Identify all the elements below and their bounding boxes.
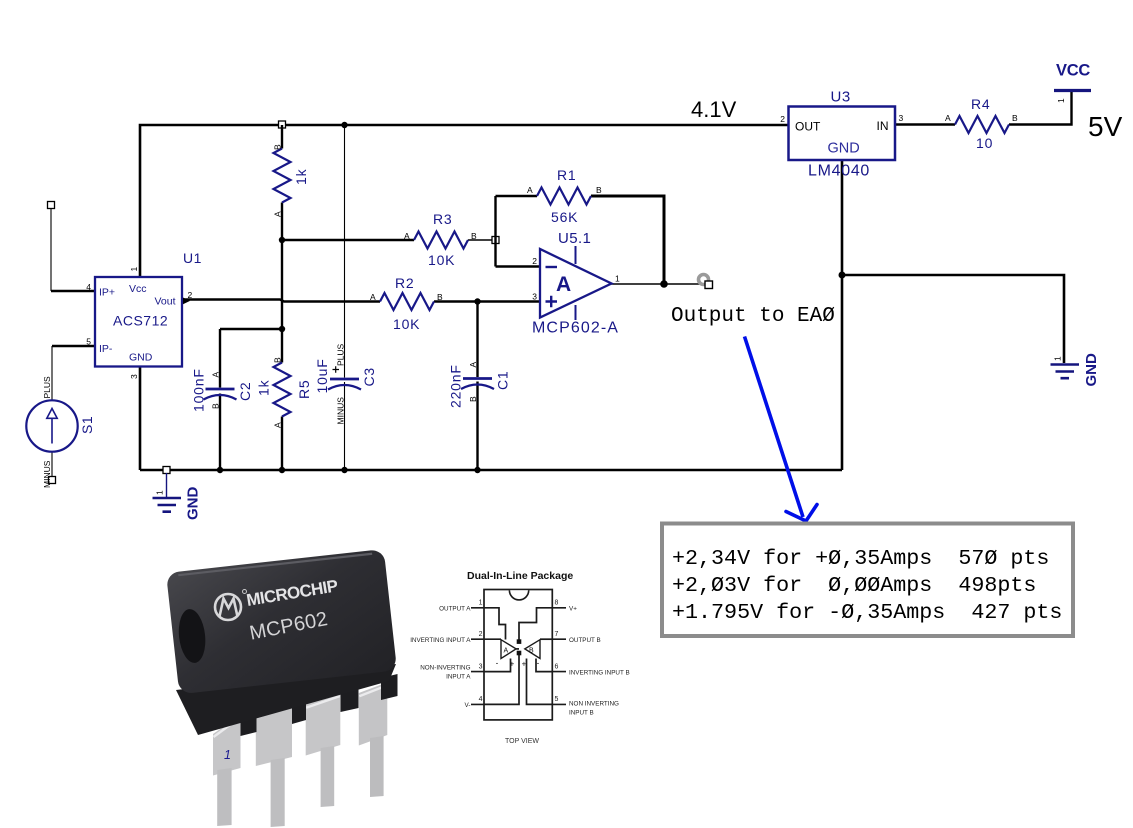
svg-text:10uF: 10uF: [314, 358, 330, 393]
wire R2 B to op-amp pin3: [434, 300, 540, 302]
svg-text:PLUS: PLUS: [42, 376, 52, 399]
svg-text:C2: C2: [237, 382, 253, 402]
junction U3 GND branch: [839, 272, 846, 279]
svg-text:TOP VIEW: TOP VIEW: [505, 738, 539, 745]
diagram Dual-In-Line Package: [410, 570, 629, 745]
svg-text:Vcc: Vcc: [129, 283, 147, 295]
capacitor C3 10uF polarized: [314, 343, 377, 424]
photo MCP602 DIP chip: [166, 549, 398, 827]
svg-text:U5.1: U5.1: [558, 230, 591, 247]
gray ring terminal: [699, 275, 709, 285]
svg-text:+: +: [522, 660, 527, 669]
svg-text:-: -: [537, 659, 540, 668]
svg-text:1: 1: [155, 490, 165, 495]
svg-text:A: A: [273, 422, 283, 428]
svg-text:OUTPUT A: OUTPUT A: [439, 606, 471, 613]
junction ground rail / R5: [279, 467, 285, 473]
svg-text:U3: U3: [831, 89, 851, 106]
junction op-amp output / R1: [660, 280, 668, 288]
junction ground rail / C1: [474, 467, 480, 473]
svg-text:2: 2: [780, 114, 785, 124]
svg-text:B: B: [437, 292, 443, 302]
svg-text:V+: V+: [569, 606, 577, 613]
svg-text:1: 1: [1053, 356, 1063, 361]
svg-text:A: A: [468, 362, 478, 368]
svg-text:1k: 1k: [256, 379, 272, 396]
svg-text:R3: R3: [433, 211, 453, 227]
svg-text:Output to EAØ: Output to EAØ: [671, 305, 835, 328]
svg-text:A: A: [556, 273, 571, 296]
svg-text:IP-: IP-: [99, 343, 113, 355]
op-amp U5.1 MCP602-A: [532, 230, 620, 337]
junction 1k / R3: [279, 237, 285, 243]
svg-text:INVERTING INPUT B: INVERTING INPUT B: [569, 670, 630, 677]
svg-text:Dual-In-Line Package: Dual-In-Line Package: [467, 570, 573, 582]
wire U1 pin3 to ground rail: [139, 366, 142, 470]
wire Vout row U1 pin2 to R2: [183, 300, 380, 302]
net label 5V: [1088, 111, 1123, 142]
svg-text:IN: IN: [877, 119, 889, 133]
svg-text:2: 2: [479, 631, 483, 638]
resistor 1k (top of divider): [273, 144, 310, 217]
svg-text:B: B: [1012, 113, 1018, 123]
U1 ACS712: [86, 250, 202, 379]
svg-text:S1: S1: [79, 416, 95, 434]
node square on 4.1V rail at divider column: [279, 121, 286, 128]
svg-text:+2,Ø3V for Ø,ØØAmps 498pts: +2,Ø3V for Ø,ØØAmps 498pts: [672, 573, 1036, 598]
svg-text:INPUT A: INPUT A: [446, 674, 471, 681]
svg-text:3: 3: [479, 663, 483, 670]
svg-text:R1: R1: [557, 167, 577, 183]
resistor R4 10: [945, 96, 1018, 151]
capacitor C2 100nF: [191, 368, 254, 412]
svg-text:10: 10: [976, 135, 993, 151]
svg-text:V-: V-: [465, 702, 471, 709]
svg-text:+: +: [510, 660, 515, 669]
wire branch to right ground: [842, 275, 1064, 363]
svg-text:MINUS: MINUS: [42, 460, 52, 488]
svg-text:ACS712: ACS712: [113, 313, 168, 329]
svg-text:C3: C3: [361, 367, 377, 387]
svg-text:4: 4: [479, 696, 483, 703]
svg-text:7: 7: [555, 631, 559, 638]
ground rail: [140, 469, 842, 472]
svg-text:3: 3: [129, 374, 139, 379]
wire divider column middle: [281, 203, 283, 363]
ground GND2 (right): [1051, 353, 1101, 387]
svg-text:A: A: [211, 372, 221, 378]
svg-text:B: B: [273, 144, 283, 150]
svg-text:5: 5: [555, 696, 559, 703]
junction 4.1V rail / C3 column: [341, 122, 347, 128]
svg-text:MINUS: MINUS: [336, 397, 346, 425]
svg-text:B: B: [471, 231, 477, 241]
svg-text:PLUS: PLUS: [336, 343, 346, 366]
wire R3 B to feedback node: [468, 239, 494, 241]
svg-text:R4: R4: [971, 96, 991, 112]
svg-text:10K: 10K: [428, 252, 455, 268]
U3 LM4040: [780, 89, 903, 180]
svg-text:1: 1: [615, 274, 620, 284]
blue arrow annotation: [745, 337, 818, 522]
wire S1 minus vertical: [51, 452, 53, 477]
svg-text:NON-INVERTING: NON-INVERTING: [420, 665, 470, 672]
junction ground rail / C3: [341, 467, 347, 473]
svg-text:+2,34V for +Ø,35Amps 57Ø pts: +2,34V for +Ø,35Amps 57Ø pts: [672, 546, 1049, 571]
svg-text:U1: U1: [183, 250, 202, 266]
svg-text:GND: GND: [1083, 353, 1100, 387]
svg-text:A: A: [945, 113, 951, 123]
svg-text:6: 6: [555, 663, 559, 670]
svg-text:GND: GND: [828, 141, 860, 157]
svg-text:-: -: [496, 659, 499, 668]
svg-text:C1: C1: [495, 371, 511, 391]
svg-text:8: 8: [555, 600, 559, 607]
svg-text:2: 2: [188, 290, 193, 300]
svg-text:NON INVERTING: NON INVERTING: [569, 701, 619, 708]
wire C2 branch horizontal: [220, 328, 282, 330]
svg-text:4.1V: 4.1V: [691, 97, 737, 122]
node square feedback: [492, 237, 499, 244]
wire op-amp output to terminal: [611, 283, 706, 285]
wire U1 Vcc pin1 to 4.1V rail: [140, 125, 788, 278]
wire S1 plus vertical: [51, 346, 53, 401]
svg-text:INPUT B: INPUT B: [569, 710, 594, 717]
svg-text:1k: 1k: [293, 168, 309, 185]
svg-text:INVERTING INPUT A: INVERTING INPUT A: [410, 637, 471, 644]
svg-text:R2: R2: [395, 275, 415, 291]
wire C1 column: [476, 302, 478, 471]
svg-text:A: A: [404, 231, 410, 241]
wire feedback vertical R1A to pin2: [494, 196, 496, 267]
wire divider junction to R3 A: [282, 239, 414, 241]
wire R4 B to VCC: [1009, 92, 1072, 125]
svg-text:100nF: 100nF: [191, 368, 207, 412]
node square ground rail GND tap: [163, 467, 170, 474]
svg-text:B: B: [529, 648, 534, 655]
svg-text:A: A: [527, 185, 533, 195]
wire C2 column: [219, 329, 221, 470]
ground GND1 (bottom left): [153, 473, 202, 520]
svg-text:56K: 56K: [551, 209, 578, 225]
svg-text:1: 1: [1056, 98, 1066, 103]
wire U3 GND down to ground rail: [841, 160, 844, 470]
resistor R3 10K: [404, 211, 477, 268]
svg-text:VCC: VCC: [1056, 62, 1090, 80]
svg-text:OUT: OUT: [795, 120, 821, 134]
node square IP+ terminal: [48, 202, 55, 209]
svg-text:OUTPUT B: OUTPUT B: [569, 637, 601, 644]
node square output: [705, 281, 713, 289]
svg-text:5: 5: [86, 337, 91, 347]
wire C3 column thin: [344, 125, 346, 470]
svg-text:1: 1: [129, 267, 139, 272]
junction C2 branch / divider column: [279, 326, 285, 332]
svg-text:GND: GND: [129, 352, 153, 364]
label Output to EA0: [671, 305, 835, 328]
svg-text:1: 1: [479, 600, 483, 607]
svg-text:A: A: [370, 292, 376, 302]
svg-text:2: 2: [532, 256, 537, 266]
resistor R5 1k: [256, 357, 313, 428]
wire R1 left lead: [496, 195, 538, 197]
wire op-amp pin2: [496, 265, 541, 267]
svg-text:Vout: Vout: [155, 296, 176, 308]
svg-text:MCP602-A: MCP602-A: [532, 320, 619, 337]
svg-text:3: 3: [899, 113, 904, 123]
svg-text:+1.795V for -Ø,35Amps 427 pts: +1.795V for -Ø,35Amps 427 pts: [672, 600, 1062, 625]
svg-text:LM4040: LM4040: [808, 163, 870, 180]
svg-text:B: B: [468, 396, 478, 402]
wire U3 IN to R4 A: [895, 123, 955, 125]
junction ground rail / C2: [217, 467, 223, 473]
node square S1 minus terminal: [49, 477, 56, 484]
svg-text:3: 3: [532, 292, 537, 302]
resistor R1 56K: [527, 167, 602, 225]
resistor R2 10K: [370, 275, 443, 332]
svg-text:B: B: [273, 357, 283, 363]
svg-text:4: 4: [86, 282, 91, 292]
current source S1: [26, 376, 95, 488]
svg-text:B: B: [211, 403, 221, 409]
wire divider column top lead: [281, 125, 283, 149]
capacitor C1 220nF: [448, 362, 511, 409]
svg-text:1: 1: [224, 748, 231, 762]
svg-text:R5: R5: [296, 380, 312, 400]
svg-text:B: B: [596, 185, 602, 195]
net label 4.1V: [691, 97, 737, 122]
junction R2 / C1: [474, 298, 480, 304]
wire U1 pin5 lead: [52, 345, 95, 347]
wire IP+ terminal vertical: [50, 208, 52, 291]
wire R5 bottom to ground rail: [281, 417, 283, 471]
power VCC: [1054, 62, 1091, 104]
measurement results box: [662, 524, 1073, 637]
svg-text:10K: 10K: [393, 316, 420, 332]
svg-text:220nF: 220nF: [448, 364, 464, 408]
wire R1 B down to output: [591, 196, 664, 284]
svg-text:IP+: IP+: [99, 287, 115, 299]
wire U1 pin4 lead: [51, 290, 95, 292]
svg-text:A: A: [504, 648, 509, 655]
svg-text:A: A: [273, 211, 283, 217]
svg-text:5V: 5V: [1088, 111, 1123, 142]
svg-text:GND: GND: [185, 487, 202, 521]
